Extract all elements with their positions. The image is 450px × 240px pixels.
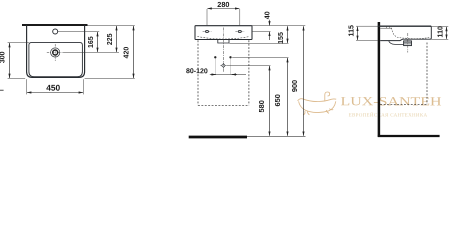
svg-text:80-120: 80-120 <box>186 68 208 75</box>
drain connection crosshair symbol <box>220 63 226 69</box>
dim 450 line <box>27 92 83 94</box>
hidden bowl bottom (dashed arc) <box>197 37 249 40</box>
left edge stub line <box>0 89 4 91</box>
bolt extension lines down (gray) <box>214 59 216 75</box>
dim 80-120 line with outside arrows <box>210 74 246 76</box>
drain crosshair centerlines <box>47 44 64 61</box>
installation dashed box <box>198 40 249 105</box>
drain inner circle <box>53 50 58 55</box>
top extension left to 115 <box>356 25 378 27</box>
side dashed box <box>380 43 427 105</box>
floor line (thick) <box>189 136 247 139</box>
tap level extension for 40 <box>252 31 271 33</box>
svg-text:LUX-SANTEH: LUX-SANTEH <box>340 94 441 108</box>
svg-text:900: 900 <box>290 80 299 92</box>
dim 580 line <box>269 66 271 136</box>
svg-text:580: 580 <box>257 100 266 112</box>
dim 300 bottom extension <box>8 78 26 80</box>
svg-text:450: 450 <box>46 83 60 93</box>
top extension line to 900 <box>252 25 305 27</box>
faucet hole reference line <box>58 31 99 33</box>
svg-text:155: 155 <box>278 32 285 44</box>
tap hole right <box>238 30 241 32</box>
dim 115 bottom extension <box>356 40 378 42</box>
washbasin outer body (top view) <box>27 25 85 78</box>
svg-text:115: 115 <box>348 25 355 36</box>
dim 165 line <box>97 32 99 52</box>
svg-text:650: 650 <box>273 94 282 106</box>
svg-text:300: 300 <box>0 51 7 63</box>
watermark bathtub icon <box>298 92 337 115</box>
inner bowl <box>29 43 83 77</box>
basin top edge <box>378 25 431 27</box>
tap hole centerlines <box>203 31 245 33</box>
dim 110 line <box>446 27 448 39</box>
dim 115 line <box>357 27 359 40</box>
dim 420 line <box>133 26 135 78</box>
hidden bowl profile (dashed) <box>392 28 430 39</box>
dim 650 line <box>287 58 289 136</box>
basin rectangle <box>195 26 252 40</box>
drain outer circle <box>51 48 60 57</box>
floor extension line <box>247 135 306 137</box>
svg-text:ЕВРОПЕЙСКАЯ САНТЕХНИКА: ЕВРОПЕЙСКАЯ САНТЕХНИКА <box>349 112 428 118</box>
drain axis centerline <box>407 33 409 53</box>
svg-text:165: 165 <box>88 36 95 48</box>
basin front and bottom profile <box>380 26 431 40</box>
dim 300 line <box>9 43 11 78</box>
dim 40 (outside arrows) <box>269 20 271 26</box>
wall extension line to 420 dim <box>88 25 135 27</box>
svg-text:420: 420 <box>123 47 130 59</box>
floor line (thick) <box>378 135 440 137</box>
front edge extension to 420 <box>85 78 135 80</box>
drain connection reference line <box>227 65 271 67</box>
bolt reference line right <box>232 57 288 59</box>
155 bottom extension line <box>230 43 289 45</box>
faucet hole <box>53 29 58 34</box>
dim 155 line <box>287 26 289 43</box>
svg-text:225: 225 <box>107 33 114 45</box>
drain reference line to dims <box>64 52 119 54</box>
svg-text:110: 110 <box>437 26 444 37</box>
dim 110 bottom extension <box>431 39 448 41</box>
svg-text:280: 280 <box>217 0 229 9</box>
vertical centerline (drain axis) <box>222 28 224 73</box>
bolt hole left <box>214 56 216 58</box>
dim 900 line <box>303 26 305 136</box>
dim 300 top extension <box>8 42 29 44</box>
dim 450 extension lines <box>26 79 28 94</box>
ledge back line <box>380 27 391 29</box>
dim 225 line <box>116 26 118 52</box>
drain outlet fitting <box>404 41 412 46</box>
tap hole notch <box>386 26 388 28</box>
wall line (thick vertical) <box>378 22 381 137</box>
tap hole left <box>205 30 208 32</box>
wall line (thick) <box>22 24 88 26</box>
svg-text:40: 40 <box>265 11 272 19</box>
drain boss below basin <box>389 41 404 45</box>
drain stub below basin <box>218 40 229 43</box>
top extension right to 110 <box>431 26 448 28</box>
bolt hole right <box>229 56 231 58</box>
